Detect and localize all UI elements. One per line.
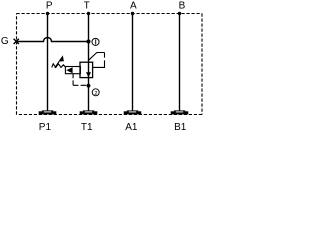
svg-text:T1: T1 [81, 122, 93, 133]
svg-text:B: B [179, 1, 186, 12]
svg-text:A1: A1 [125, 122, 138, 133]
svg-text:T: T [84, 1, 90, 12]
svg-text:2: 2 [94, 91, 97, 97]
svg-text:P1: P1 [39, 122, 52, 133]
svg-text:P: P [46, 1, 53, 12]
svg-text:A: A [130, 1, 137, 12]
svg-text:B1: B1 [174, 122, 187, 133]
svg-text:G: G [1, 36, 9, 47]
